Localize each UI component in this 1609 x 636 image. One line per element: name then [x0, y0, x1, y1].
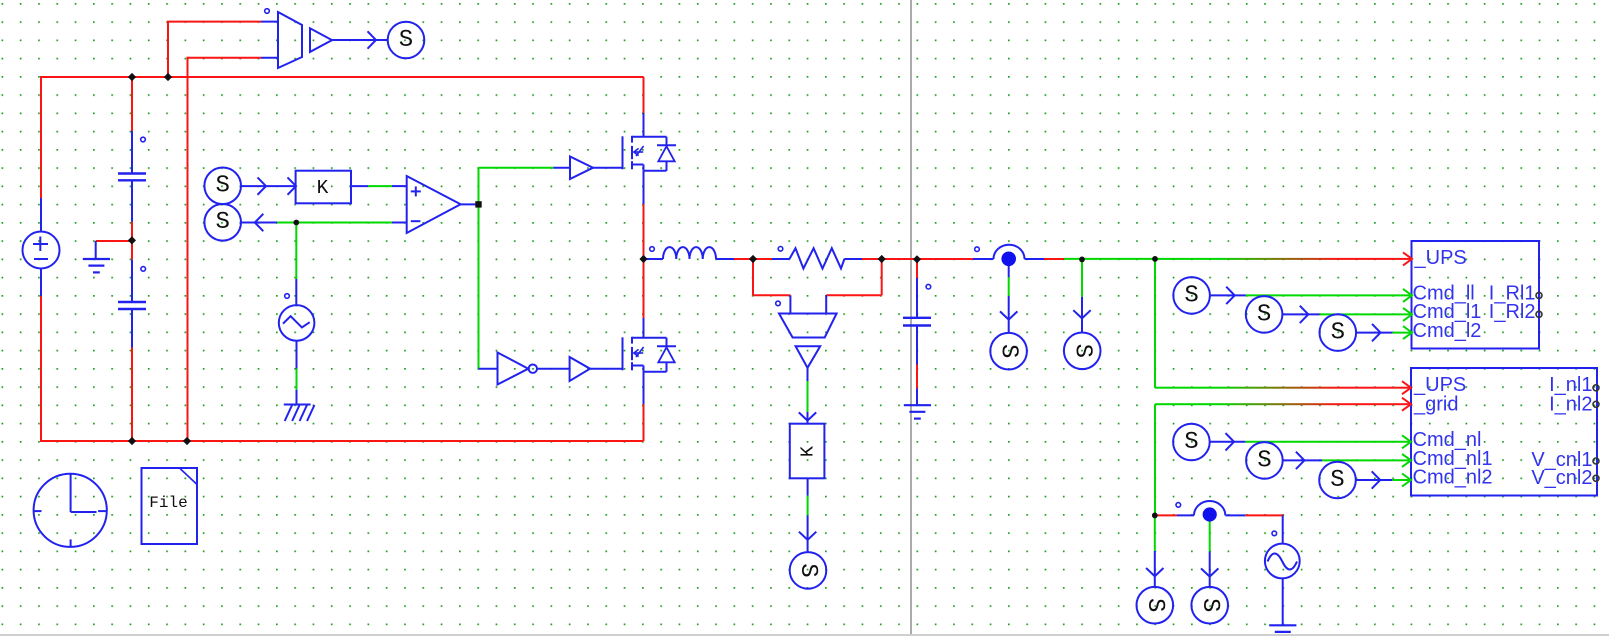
- svg-text:S: S: [1196, 598, 1223, 612]
- svg-text:_grid: _grid: [1413, 394, 1458, 416]
- svg-text:K: K: [798, 445, 819, 457]
- svg-text:S: S: [399, 27, 413, 54]
- svg-text:S: S: [1257, 301, 1271, 328]
- svg-text:S: S: [1184, 429, 1198, 456]
- svg-text:_UPS: _UPS: [1414, 247, 1467, 269]
- svg-text:S: S: [215, 209, 229, 236]
- svg-text:S: S: [1330, 467, 1344, 494]
- svg-text:S: S: [1068, 344, 1095, 358]
- svg-text:File: File: [149, 494, 187, 512]
- svg-text:V_cnl2: V_cnl2: [1531, 467, 1592, 489]
- svg-text:I_Rl2: I_Rl2: [1489, 301, 1536, 323]
- svg-text:I_nl2: I_nl2: [1549, 394, 1592, 416]
- svg-text:S: S: [995, 344, 1022, 358]
- svg-text:S: S: [794, 563, 821, 577]
- svg-text:K: K: [317, 177, 329, 199]
- svg-text:Cmd_nl2: Cmd_nl2: [1413, 467, 1493, 489]
- svg-text:S: S: [1141, 598, 1168, 612]
- svg-text:S: S: [1257, 447, 1271, 474]
- svg-text:S: S: [1184, 282, 1198, 309]
- svg-text:Cmd_l2: Cmd_l2: [1413, 320, 1482, 342]
- svg-text:S: S: [1331, 320, 1345, 347]
- svg-text:S: S: [215, 173, 229, 200]
